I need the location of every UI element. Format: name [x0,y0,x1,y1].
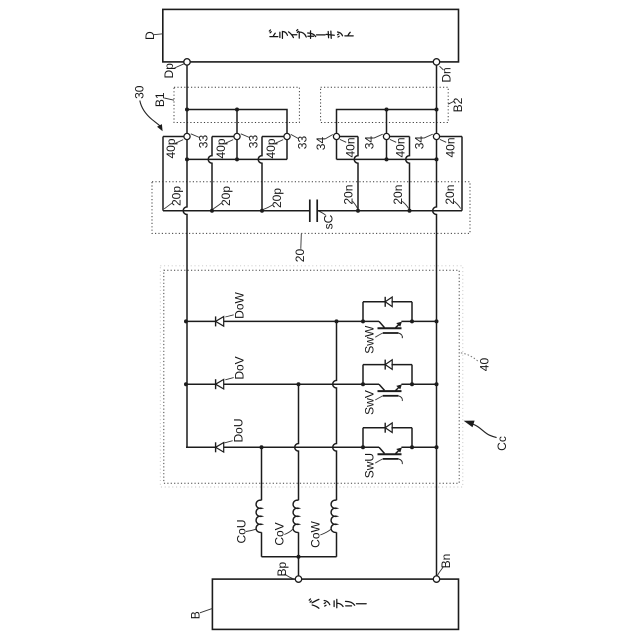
svg-text:33: 33 [296,136,310,150]
svg-text:20: 20 [293,249,307,263]
svg-text:DoV: DoV [233,356,247,379]
svg-text:20n: 20n [342,185,356,205]
svg-text:34: 34 [363,136,377,150]
svg-text:20n: 20n [443,185,457,205]
svg-text:D: D [143,31,157,40]
svg-text:20p: 20p [219,186,233,206]
svg-text:30: 30 [133,85,147,99]
svg-text:DoU: DoU [232,418,246,442]
svg-text:SwV: SwV [363,390,377,415]
svg-text:40p: 40p [264,138,278,158]
svg-text:Cc: Cc [495,436,509,451]
svg-text:20p: 20p [270,188,284,208]
svg-text:20p: 20p [170,186,184,206]
svg-text:CoU: CoU [235,519,249,543]
svg-text:CoV: CoV [273,522,287,545]
svg-text:SwU: SwU [363,453,377,478]
svg-text:33: 33 [197,135,211,149]
svg-text:Dn: Dn [439,67,453,82]
svg-text:40: 40 [478,358,492,372]
svg-text:33: 33 [247,135,261,149]
svg-text:B: B [189,611,203,619]
svg-text:CoW: CoW [309,520,323,547]
svg-text:Bn: Bn [439,554,453,569]
svg-text:40p: 40p [214,138,228,158]
svg-text:34: 34 [413,136,427,150]
svg-text:40p: 40p [164,138,178,158]
svg-text:SwW: SwW [363,325,377,354]
svg-text:20n: 20n [391,185,405,205]
svg-text:40n: 40n [444,137,458,157]
svg-text:B2: B2 [451,97,465,112]
svg-text:40n: 40n [344,137,358,157]
svg-text:DoW: DoW [233,291,247,318]
svg-text:Dp: Dp [162,63,176,79]
svg-text:40n: 40n [394,137,408,157]
svg-text:sC: sC [322,214,336,229]
svg-text:34: 34 [314,137,328,151]
svg-text:B1: B1 [153,92,167,107]
svg-text:Bp: Bp [275,562,289,577]
